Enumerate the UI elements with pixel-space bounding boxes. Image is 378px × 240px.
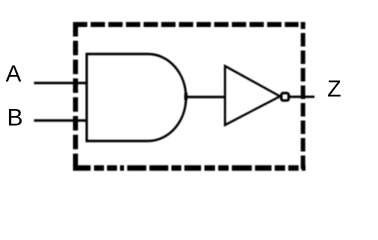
svg-text:A: A xyxy=(6,61,22,87)
dashed chip boundary left edge xyxy=(73,22,78,172)
wire output Z xyxy=(290,96,315,98)
dashed chip boundary top edge xyxy=(73,22,299,27)
svg-text:Z: Z xyxy=(327,76,341,102)
AND gate output nub xyxy=(184,93,187,101)
dashed chip boundary right edge xyxy=(301,22,306,171)
inverter U2 bubble xyxy=(281,93,288,100)
wire input A xyxy=(34,82,87,84)
svg-text:B: B xyxy=(7,105,23,132)
wire AND output to inverter xyxy=(185,96,225,98)
inverter U2 triangle xyxy=(225,66,280,125)
AND gate U1 xyxy=(87,54,186,141)
dashed chip boundary bottom edge xyxy=(73,165,306,171)
wire input B xyxy=(34,119,87,121)
